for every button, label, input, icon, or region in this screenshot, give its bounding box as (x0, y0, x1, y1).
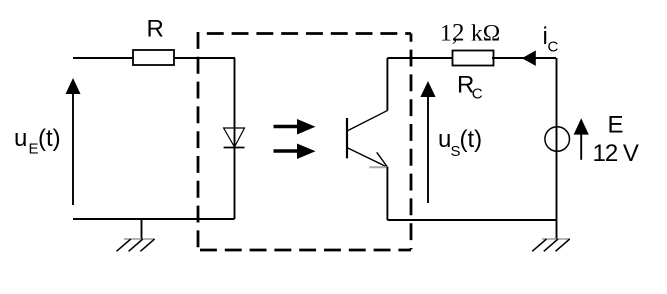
svg-text:12 V: 12 V (593, 140, 639, 167)
svg-text:(t): (t) (460, 126, 483, 153)
svg-text:kΩ: kΩ (471, 21, 500, 47)
svg-text:R: R (147, 16, 164, 43)
svg-text:E: E (29, 141, 39, 158)
svg-text:C: C (472, 86, 483, 103)
svg-text:C: C (548, 39, 559, 56)
svg-text:u: u (14, 125, 27, 152)
svg-text:u: u (438, 126, 451, 153)
svg-text:2: 2 (452, 20, 465, 47)
svg-text:(t): (t) (38, 125, 61, 152)
svg-text:E: E (608, 112, 624, 139)
